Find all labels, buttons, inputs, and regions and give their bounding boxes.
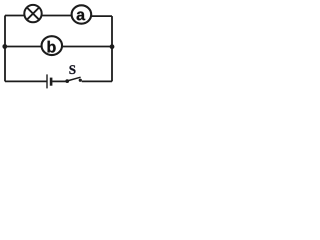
node junction right xyxy=(110,44,115,49)
voltmeter b xyxy=(42,36,63,55)
battery B1 xyxy=(47,74,51,88)
wire top rail left segment xyxy=(5,15,24,17)
wire left vertical xyxy=(4,16,6,82)
switch S xyxy=(65,77,82,83)
wire middle rail right segment xyxy=(63,46,113,48)
wire bottom rail left segment xyxy=(5,80,47,82)
label S xyxy=(69,65,75,74)
wire top rail middle segment xyxy=(42,15,72,17)
lamp L1 xyxy=(24,5,41,22)
wire switch to corner xyxy=(82,80,112,82)
node junction left xyxy=(2,44,7,49)
wire battery to switch xyxy=(52,80,65,82)
wire middle rail left segment xyxy=(5,46,41,48)
wire top rail right segment xyxy=(92,15,112,17)
wire right vertical xyxy=(111,16,113,81)
ammeter a xyxy=(72,5,92,23)
